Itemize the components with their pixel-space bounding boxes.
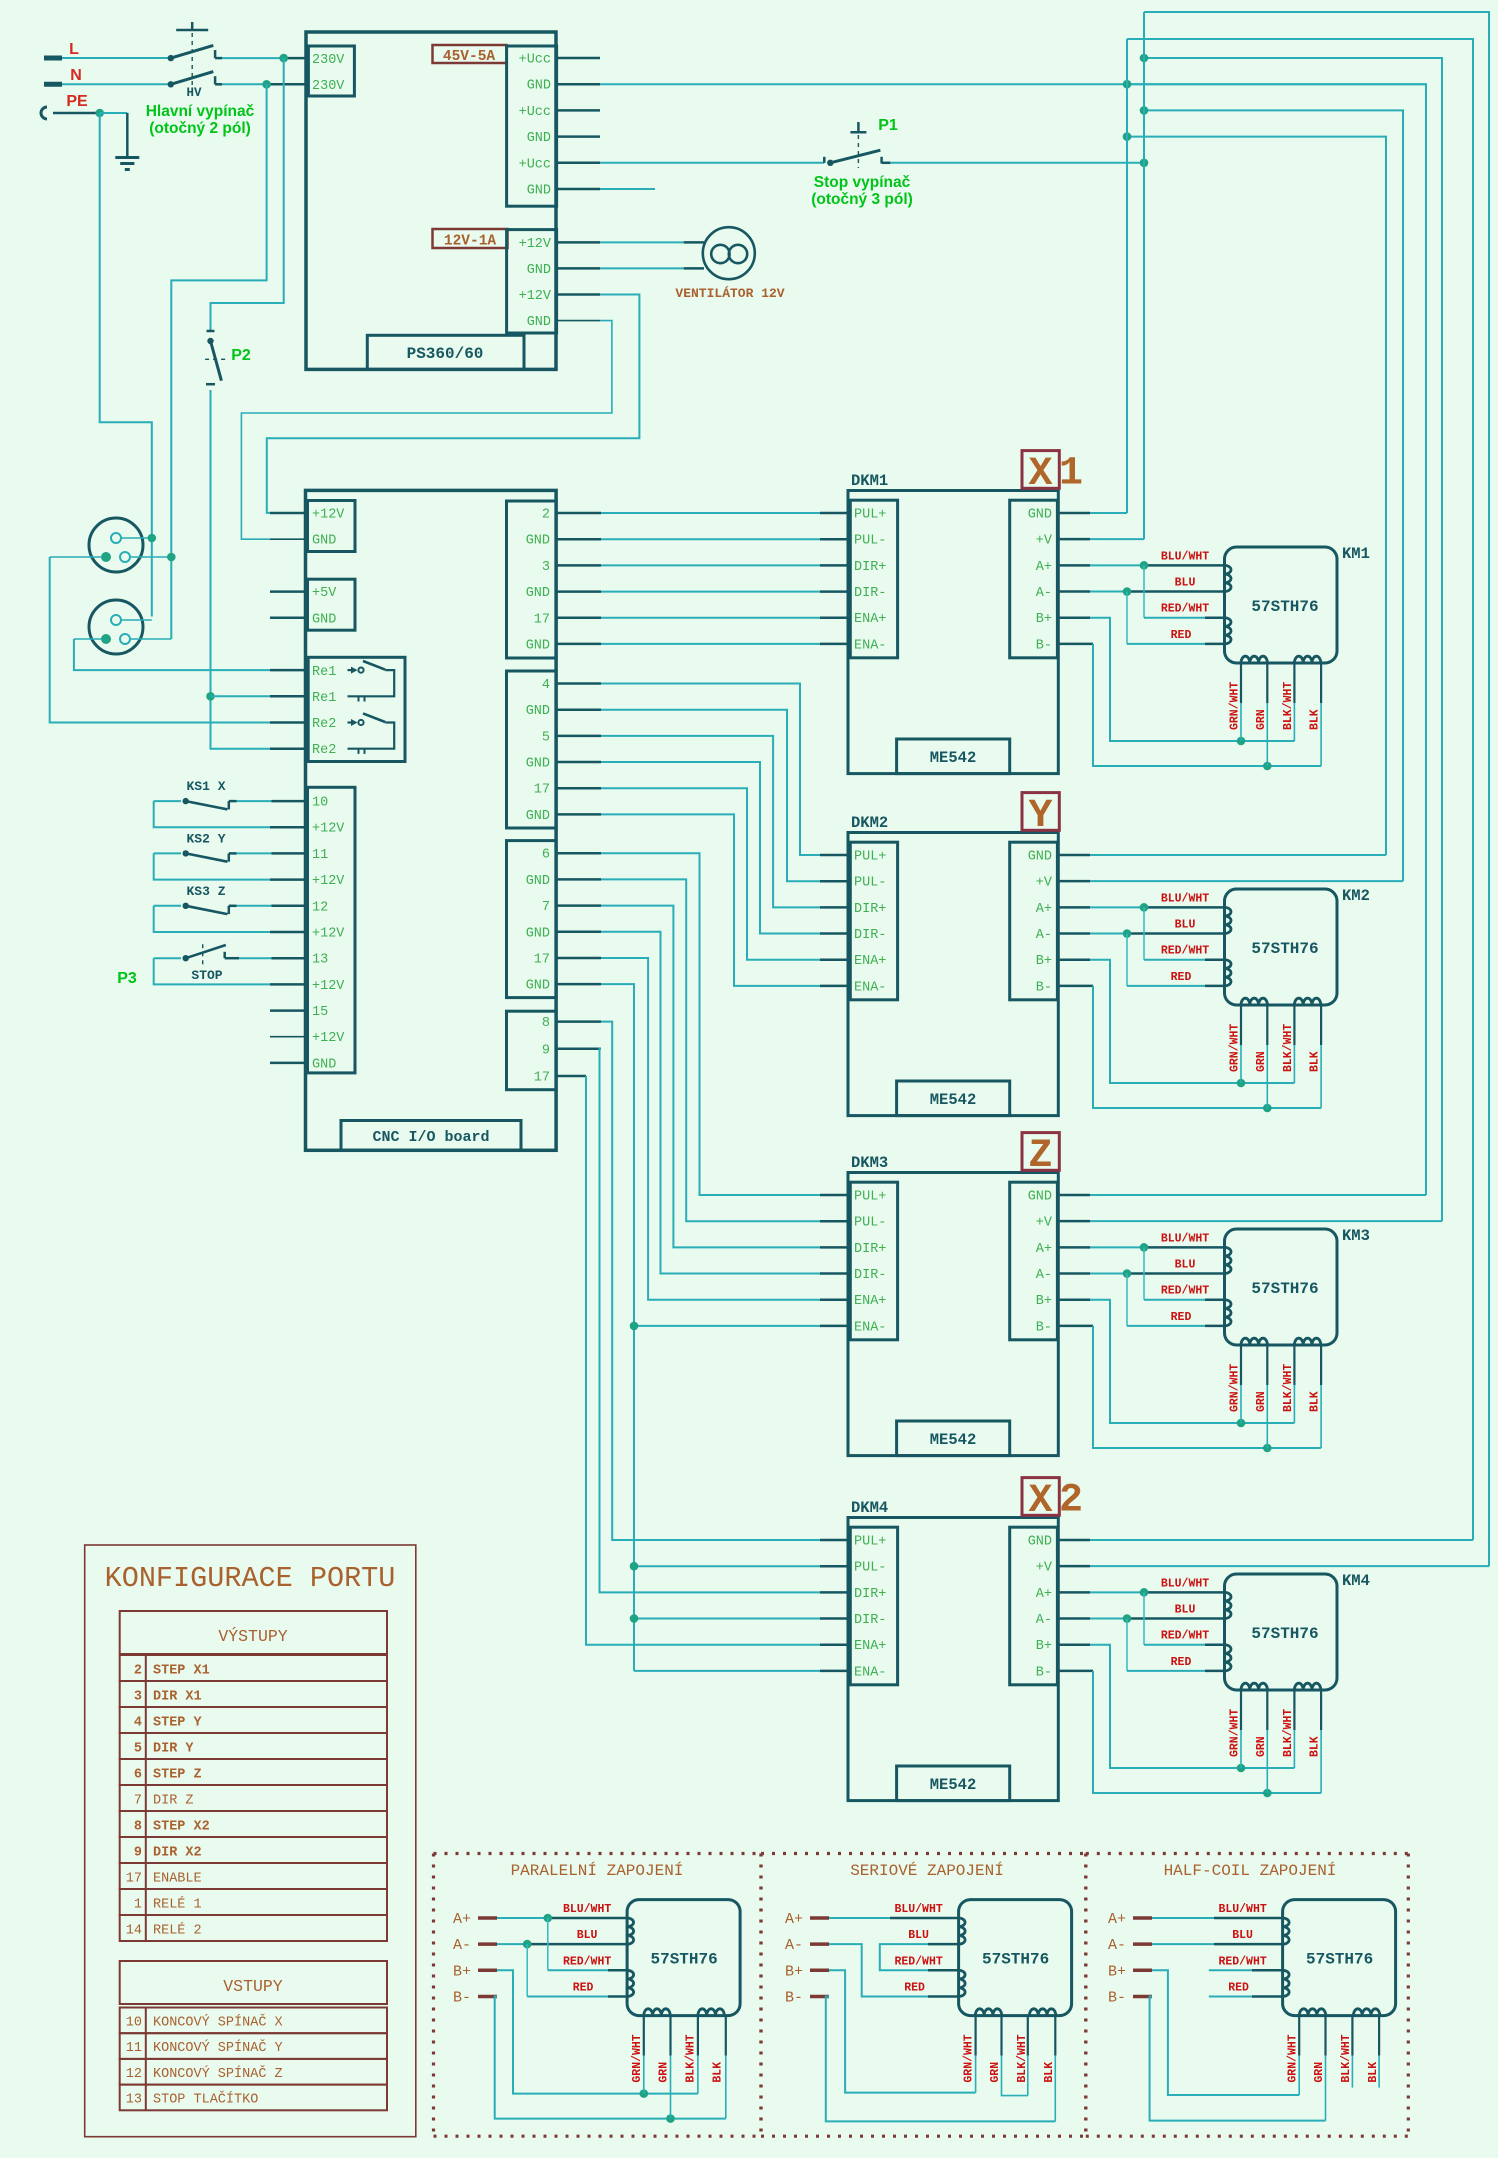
wire BLK/WHT floating stub example 3 (1351, 2016, 1353, 2088)
svg-text:ME542: ME542 (930, 1431, 977, 1449)
label GRN example 2 (989, 2062, 1002, 2083)
wire DKM2 B+ to GRN/WHT BLK/WHT bus (1057, 960, 1294, 1083)
svg-text:A+: A+ (453, 1911, 471, 1928)
node GND tap Y (1123, 132, 1132, 141)
svg-text:B+: B+ (1036, 1639, 1052, 1654)
svg-text:ENA-: ENA- (854, 980, 886, 995)
svg-text:RED/WHT: RED/WHT (1161, 945, 1209, 958)
label BLK KM4 (1309, 1736, 1322, 1757)
pin stub 15 (270, 1009, 306, 1012)
svg-text:ENA+: ENA+ (854, 954, 886, 969)
svg-text:PUL+: PUL+ (854, 850, 886, 865)
wire BLU to RED/WHT series link example (880, 1944, 959, 1970)
label KM3 (1342, 1227, 1370, 1245)
wire signal GND to driver DKM2 (556, 710, 848, 882)
wire A+ serial example (829, 1917, 959, 1919)
svg-text:B+: B+ (1036, 612, 1052, 627)
connector DKM2 control pins (850, 842, 897, 1000)
wire +V bus tap to Y driver (1144, 110, 1403, 881)
svg-text:B+: B+ (1036, 1294, 1052, 1309)
label BLU/WHT KM1 (1161, 550, 1209, 563)
connector CNC parallel port outputs group 1 (507, 501, 557, 658)
svg-text:RED/WHT: RED/WHT (563, 1955, 611, 1968)
wire DKM4 GND to bus (1057, 1539, 1473, 1542)
node B- bus GRN tap KM3 (1263, 1444, 1272, 1453)
wire B+ bus parallel example (497, 1970, 698, 2098)
svg-text:7: 7 (542, 900, 550, 915)
node +V feed from P1 (1140, 159, 1149, 168)
label box ME542 on DKM1 (897, 739, 1010, 774)
connector DKM4 power and motor pins (1010, 1527, 1058, 1685)
wire signal 7 DIR Z to driver DKM3 (556, 906, 848, 1248)
wire GND bus tap to Y driver (1127, 137, 1386, 855)
svg-text:GND: GND (527, 79, 551, 94)
wire signal 17 ENABLE to driver DKM2 (556, 788, 848, 960)
svg-text:DKM3: DKM3 (851, 1154, 888, 1172)
svg-text:BLU: BLU (1232, 1929, 1253, 1942)
label BLU/WHT KM2 (1161, 892, 1209, 905)
svg-text:N: N (70, 67, 82, 84)
svg-text:GND: GND (526, 586, 550, 601)
svg-text:5: 5 (542, 730, 550, 745)
connector socket Z2 (output socket 2) (74, 600, 171, 654)
label STOP (191, 968, 222, 983)
label P2 (231, 347, 251, 364)
svg-text:6: 6 (542, 848, 550, 863)
wire DKM2 A+ BLU/WHT (1057, 906, 1224, 909)
label BLK/WHT KM4 (1282, 1709, 1295, 1757)
switch P1 stop (824, 122, 890, 168)
pin stub GND 2 (557, 135, 600, 138)
node N at socket Z1 (167, 553, 176, 562)
connector CNC parallel port outputs group 3 (507, 841, 557, 998)
wire signal GND to driver DKM3 (556, 984, 848, 1326)
label RED/WHT example 3 (1218, 1955, 1266, 1968)
table row output 2 STEP X1 (120, 1655, 387, 1681)
svg-text:BLK: BLK (1367, 2062, 1380, 2083)
wire BLK tap example 1 (725, 2016, 727, 2119)
wire BLK floating stub example 3 (1378, 2016, 1380, 2088)
svg-text:A-: A- (785, 1937, 803, 1954)
svg-text:Re2: Re2 (312, 743, 336, 758)
motor example 2 winding B coil (975, 2009, 1001, 2016)
svg-text:A-: A- (1036, 928, 1052, 943)
node +V tap Y (1140, 106, 1149, 115)
terminal A+ example 2 (785, 1911, 829, 1928)
svg-text:BLU/WHT: BLU/WHT (894, 1903, 942, 1916)
label GRN/WHT example 3 (1287, 2034, 1300, 2082)
wire GRN/WHT tap example 3 (1298, 2016, 1300, 2095)
label P3 (117, 970, 137, 987)
svg-text:GRN: GRN (989, 2062, 1002, 2083)
svg-text:5: 5 (134, 1742, 142, 1757)
label GRN KM3 (1255, 1391, 1268, 1412)
svg-text:BLK/WHT: BLK/WHT (1282, 1364, 1295, 1412)
label BLK KM3 (1309, 1391, 1322, 1412)
svg-text:RED/WHT: RED/WHT (1218, 1955, 1266, 1968)
label KS1 X (186, 779, 225, 794)
wire socket Z2 to relay Re1 contact (74, 639, 306, 670)
svg-text:2: 2 (542, 508, 550, 523)
motor KM2 winding B2 coil (1294, 998, 1320, 1005)
wire +V top bus to X2 driver (1144, 12, 1489, 1566)
svg-text:DKM1: DKM1 (851, 472, 888, 490)
terminal B- example 3 (1108, 1990, 1152, 2007)
wire signal 8 STEP X2 to driver DKM4 (556, 1022, 848, 1540)
svg-text:STOP: STOP (191, 968, 222, 983)
wire B- half-coil example (1150, 1997, 1326, 2121)
wire signal GND to driver DKM2 (556, 762, 848, 934)
wire GRN/WHT tap example 2 (974, 2016, 976, 2093)
node N junction (262, 80, 271, 89)
svg-text:+12V: +12V (312, 822, 345, 837)
svg-text:11: 11 (126, 2041, 142, 2056)
svg-text:BLK: BLK (1309, 1736, 1322, 1757)
wire GND bus to driver DKM4 negatives (634, 1326, 848, 1671)
motor example 3 57STH76 body (1283, 1900, 1396, 2016)
svg-text:45V-5A: 45V-5A (443, 49, 496, 65)
svg-text:GND: GND (526, 638, 550, 653)
node PE at socket Z1 (148, 534, 157, 543)
wire A- parallel example (497, 1940, 627, 1949)
terminal A- example 3 (1108, 1937, 1152, 1954)
svg-text:GRN/WHT: GRN/WHT (1229, 1024, 1242, 1072)
terminal B- example 2 (785, 1990, 829, 2007)
svg-text:BLU: BLU (1175, 1259, 1196, 1272)
label RED example 1 (573, 1982, 594, 1995)
wire RED/WHT link KM2 (1144, 907, 1225, 959)
wire RED link KM4 (1127, 1619, 1225, 1671)
wire RED link KM2 (1127, 934, 1225, 986)
label RED example 2 (904, 1982, 925, 1995)
wire N to socket pins (171, 84, 266, 639)
label GRN KM1 (1255, 709, 1268, 730)
wire DKM2 A- BLU (1057, 932, 1224, 935)
svg-text:Re2: Re2 (312, 717, 336, 732)
svg-text:RED: RED (904, 1982, 925, 1995)
label HV (186, 86, 202, 100)
terminal A+ example 3 (1108, 1911, 1152, 1928)
svg-text:BLK: BLK (1309, 1051, 1322, 1072)
svg-text:PUL-: PUL- (854, 1561, 886, 1576)
svg-text:ENA-: ENA- (854, 638, 886, 653)
svg-text:10: 10 (312, 796, 328, 811)
node B+ bus GRN/WHT tap KM1 (1237, 737, 1246, 746)
table row output 4 STEP Y (120, 1707, 387, 1733)
motor KM3 winding A coil (1225, 1247, 1232, 1273)
wire BLK/WHT tap KM2 (1293, 1005, 1295, 1083)
label box 12V-1A (433, 229, 508, 250)
table row input 10 (120, 2008, 387, 2034)
svg-text:GND: GND (527, 263, 551, 278)
label RED/WHT example 1 (563, 1955, 611, 1968)
svg-text:P2: P2 (231, 347, 251, 364)
svg-text:KONCOVÝ SPÍNAČ Y: KONCOVÝ SPÍNAČ Y (153, 2040, 283, 2056)
svg-text:BLU: BLU (1175, 919, 1196, 932)
motor KM4 winding A2 coil (1225, 1645, 1232, 1671)
svg-text:BLK/WHT: BLK/WHT (1282, 682, 1295, 730)
driver DKM2 outline (848, 833, 1058, 1116)
svg-text:STEP Z: STEP Z (153, 1768, 202, 1783)
node L-P2 junction (279, 54, 288, 63)
wire socket Z1 to relay Re2 contact (50, 557, 306, 723)
svg-text:RELÉ 1: RELÉ 1 (153, 1897, 202, 1913)
wire BLK tap KM1 (1320, 663, 1322, 766)
svg-text:STEP X1: STEP X1 (153, 1664, 210, 1679)
svg-text:GND: GND (1028, 1190, 1052, 1205)
svg-text:KONFIGURACE PORTU: KONFIGURACE PORTU (105, 1562, 396, 1595)
svg-text:ENA+: ENA+ (854, 612, 886, 627)
svg-text:2: 2 (134, 1664, 142, 1679)
label DKM4 (851, 1499, 888, 1517)
node B+ bus GRN/WHT tap KM3 (1237, 1419, 1246, 1428)
motor example 1 57STH76 body (627, 1900, 740, 2016)
terminal B- example 1 (453, 1990, 497, 2007)
svg-text:Hlavní vypínač: Hlavní vypínač (146, 103, 255, 120)
label RED/WHT KM1 (1161, 603, 1209, 616)
wire signal 17 ENABLE to driver DKM3 (556, 958, 848, 1300)
wire DKM3 B+ to GRN/WHT BLK/WHT bus (1057, 1300, 1294, 1423)
label KS2 Y (186, 831, 225, 846)
wire B+ half-coil example (1152, 1970, 1299, 2095)
node GND bus at DKM4 PUL- (630, 1562, 639, 1571)
svg-text:B-: B- (453, 1990, 471, 2007)
node A- junction DKM1 (1123, 587, 1132, 596)
table row output 6 STEP Z (120, 1759, 387, 1785)
connector DKM1 control pins (850, 500, 897, 658)
svg-text:7: 7 (134, 1794, 142, 1809)
svg-text:B+: B+ (1108, 1963, 1126, 1980)
svg-text:ENA-: ENA- (854, 1665, 886, 1680)
wire DKM1 B+ to GRN/WHT BLK/WHT bus (1057, 618, 1294, 741)
connector CNC parallel port outputs group 4 (507, 1011, 557, 1089)
svg-text:GND: GND (527, 315, 551, 330)
motor example 2 winding A2 coil (959, 1970, 966, 1996)
wire BLK tap KM2 (1320, 1005, 1322, 1108)
label VENTILATOR 12V (675, 286, 784, 301)
wire B- bus parallel example (495, 1997, 726, 2123)
svg-text:A-: A- (453, 1937, 471, 1954)
relay contact Re2 (348, 713, 395, 754)
wire GRN tap example 3 (1324, 2016, 1326, 2121)
wire DKM2 B- to GRN BLK bus (1057, 986, 1321, 1108)
connector DKM2 power and motor pins (1010, 842, 1058, 1000)
motor example 2 57STH76 body (959, 1900, 1072, 2016)
label RED/WHT KM3 (1161, 1285, 1209, 1298)
wire DKM2 +V to bus (1057, 880, 1403, 883)
svg-text:DIR-: DIR- (854, 1613, 886, 1628)
wire GRN/WHT tap KM1 (1240, 663, 1242, 741)
connector CNC parallel port outputs group 2 (507, 671, 557, 828)
motor KM2 winding A2 coil (1225, 960, 1232, 986)
label BLK/WHT example 3 (1340, 2034, 1353, 2082)
terminal N (mains neutral input) (44, 67, 171, 84)
svg-text:A+: A+ (1108, 1911, 1126, 1928)
table row output 7 DIR Z (120, 1785, 387, 1811)
wire A- serial example (829, 1944, 959, 1996)
svg-text:P1: P1 (878, 117, 898, 134)
driver DKM4 outline (848, 1518, 1058, 1801)
svg-text:L: L (69, 41, 79, 58)
svg-text:ME542: ME542 (930, 1776, 977, 1794)
svg-text:57STH76: 57STH76 (1251, 1280, 1318, 1298)
svg-text:13: 13 (126, 2093, 142, 2108)
svg-text:GRN/WHT: GRN/WHT (1229, 682, 1242, 730)
wire GRN/WHT tap KM2 (1240, 1005, 1242, 1083)
svg-text:BLU: BLU (908, 1929, 929, 1942)
table row output 14 REL&#201 (120, 1915, 387, 1941)
node B- bus GRN tap KM1 (1263, 762, 1272, 771)
label P1 (878, 117, 898, 134)
motor KM1 winding B coil (1241, 656, 1267, 663)
node PE junction (95, 109, 104, 118)
label KS3 Z (186, 884, 225, 899)
svg-text:230V: 230V (312, 79, 345, 94)
motor example 3 winding B coil (1299, 2009, 1325, 2016)
label box ME542 on DKM2 (897, 1081, 1010, 1116)
terminal L (mains line input) (44, 41, 171, 58)
node A+ junction DKM1 (1140, 561, 1149, 570)
switch HV pole 2 (N) (168, 72, 222, 88)
label GRN example 1 (658, 2062, 671, 2083)
power supply PS360/60 outline (306, 32, 556, 369)
node B+ bus GRN/WHT tap KM2 (1237, 1079, 1246, 1088)
svg-text:GRN: GRN (1255, 1051, 1268, 1072)
switch KS2 limit switch (154, 850, 306, 879)
connector DKM1 power and motor pins (1010, 500, 1058, 658)
relay contact Re1 (348, 661, 395, 702)
svg-text:10: 10 (126, 2016, 142, 2031)
svg-text:KM2: KM2 (1342, 887, 1370, 905)
wire BLK/WHT tap example 1 (697, 2016, 699, 2094)
connector DKM4 control pins (850, 1527, 897, 1685)
wire BLK tap KM4 (1320, 1690, 1322, 1793)
label BLK example 2 (1043, 2062, 1056, 2083)
ground symbol (115, 158, 139, 170)
wire signal GND to driver DKM2 (556, 814, 848, 986)
svg-text:VÝSTUPY: VÝSTUPY (218, 1627, 287, 1646)
svg-text:A-: A- (1108, 1937, 1126, 1954)
svg-text:DIR+: DIR+ (854, 902, 886, 917)
svg-text:B-: B- (1036, 638, 1052, 653)
svg-text:BLK: BLK (711, 2062, 724, 2083)
example box HALF-COIL ZAPOJENI border (1086, 1854, 1409, 2137)
motor example 2 winding B2 coil (1029, 2009, 1055, 2016)
svg-text:57STH76: 57STH76 (1251, 598, 1318, 616)
wire B- serial example (826, 1997, 1056, 2122)
svg-text:8: 8 (134, 1820, 142, 1835)
wire DKM1 A+ BLU/WHT (1057, 564, 1224, 567)
wire RED link KM1 (1127, 592, 1225, 644)
svg-text:B+: B+ (785, 1963, 803, 1980)
example box SERIOVE ZAPOJENI border (761, 1854, 1086, 2137)
svg-text:A+: A+ (1036, 902, 1052, 917)
wire BLK tap example 2 (1054, 2016, 1056, 2122)
svg-text:HV: HV (186, 86, 202, 100)
svg-text:SERIOVÉ ZAPOJENÍ: SERIOVÉ ZAPOJENÍ (850, 1861, 1004, 1880)
svg-text:GRN: GRN (1255, 1391, 1268, 1412)
svg-text:BLU: BLU (1175, 577, 1196, 590)
svg-text:+V: +V (1036, 876, 1053, 891)
svg-text:PUL+: PUL+ (854, 1535, 886, 1550)
svg-text:KM3: KM3 (1342, 1227, 1370, 1245)
node GND bus at DKM3 ENA- (630, 1322, 639, 1331)
connector DKM3 power and motor pins (1010, 1182, 1058, 1340)
svg-text:B-: B- (785, 1990, 803, 2007)
motor example 1 winding A2 coil (627, 1970, 634, 1996)
svg-text:BLK/WHT: BLK/WHT (1016, 2034, 1029, 2082)
svg-text:GND: GND (312, 612, 336, 627)
svg-text:GND: GND (1028, 850, 1052, 865)
svg-text:A-: A- (1036, 1268, 1052, 1283)
table row input 13 (120, 2085, 387, 2111)
svg-text:RED/WHT: RED/WHT (1161, 1285, 1209, 1298)
svg-text:B-: B- (1108, 1990, 1126, 2007)
label GRN/WHT KM4 (1229, 1709, 1242, 1757)
pin stub +12V unused (270, 1036, 306, 1038)
label RED KM4 (1171, 1656, 1192, 1669)
node GND tap Z (1123, 80, 1132, 89)
svg-text:STEP Y: STEP Y (153, 1716, 203, 1731)
label Stop vypinac annotation (811, 174, 913, 208)
terminal PE (protective earth input) (41, 93, 100, 119)
svg-text:57STH76: 57STH76 (982, 1951, 1049, 1969)
table VYSTUPY header (120, 1611, 387, 1654)
svg-text:4: 4 (542, 678, 550, 693)
svg-text:BLU: BLU (577, 1929, 598, 1942)
label GRN/WHT KM1 (1229, 682, 1242, 730)
table row input 12 (120, 2059, 387, 2085)
wire PE to ground symbol (100, 113, 128, 156)
svg-text:ME542: ME542 (930, 749, 977, 767)
svg-text:57STH76: 57STH76 (1306, 1951, 1373, 1969)
connector 230V input pins (308, 46, 354, 96)
svg-text:CNC I/O board: CNC I/O board (372, 1129, 489, 1146)
wire signal GND to driver DKM1 (556, 643, 848, 646)
wire DKM1 GND to bus (1057, 512, 1127, 515)
svg-text:KM1: KM1 (1342, 545, 1370, 563)
terminal A- example 1 (453, 1937, 497, 1954)
svg-text:Re1: Re1 (312, 665, 336, 680)
svg-text:DIR+: DIR+ (854, 560, 886, 575)
svg-text:+12V: +12V (312, 508, 345, 523)
svg-text:PUL-: PUL- (854, 1216, 886, 1231)
svg-text:A+: A+ (1036, 560, 1052, 575)
svg-text:GRN/WHT: GRN/WHT (1229, 1709, 1242, 1757)
label BLK/WHT KM1 (1282, 682, 1295, 730)
svg-text:3: 3 (542, 560, 550, 575)
svg-text:BLK/WHT: BLK/WHT (1340, 2034, 1353, 2082)
svg-text:HALF-COIL ZAPOJENÍ: HALF-COIL ZAPOJENÍ (1164, 1861, 1337, 1880)
svg-text:BLU: BLU (1175, 1604, 1196, 1617)
motor ventilator 12V (557, 227, 755, 279)
label GRN KM4 (1255, 1736, 1268, 1757)
wire GRN tap KM2 (1266, 1005, 1268, 1108)
wire DKM3 A- BLU (1057, 1272, 1224, 1275)
label SERIOVE ZAPOJENI (850, 1861, 1004, 1880)
svg-text:+12V: +12V (312, 874, 345, 889)
motor KM4 winding B2 coil (1294, 1683, 1320, 1690)
wire signal 9 DIR X2 to driver DKM4 (556, 1049, 848, 1593)
svg-text:A-: A- (1036, 586, 1052, 601)
terminal B+ example 1 (453, 1963, 497, 1980)
svg-text:RELÉ 2: RELÉ 2 (153, 1923, 202, 1939)
svg-text:DIR-: DIR- (854, 928, 886, 943)
svg-text:12: 12 (312, 900, 328, 915)
wire DKM4 B- to GRN BLK bus (1057, 1671, 1321, 1793)
label axis X1 (1022, 451, 1083, 497)
wire DKM3 B- to GRN BLK bus (1057, 1326, 1321, 1448)
